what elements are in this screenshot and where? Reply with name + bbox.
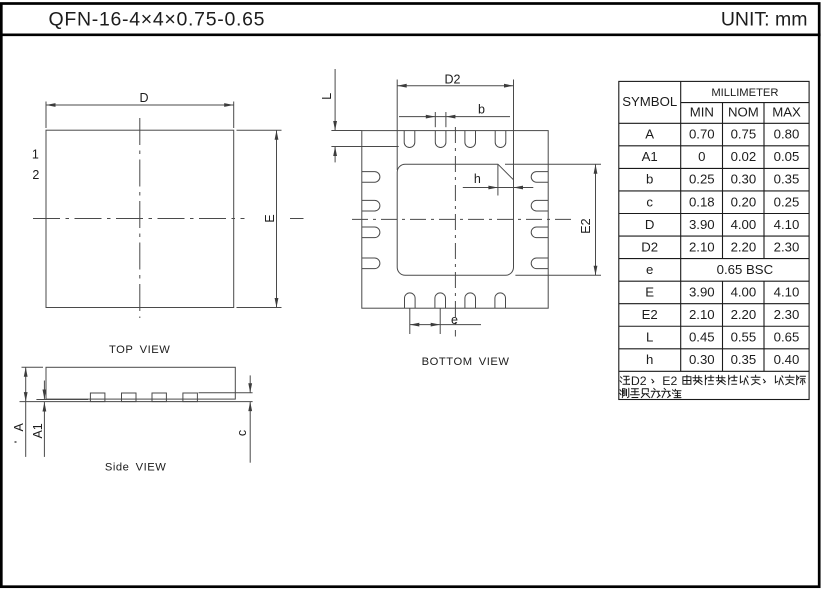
svg-text:BOTTOM VIEW: BOTTOM VIEW [422, 356, 510, 368]
dimension e extension lines [409, 308, 411, 334]
svg-text:0.30: 0.30 [731, 172, 757, 187]
arrow b left [426, 115, 436, 119]
dimension D2 extension lines [396, 80, 398, 171]
svg-text:0.25: 0.25 [689, 172, 715, 187]
dimension b lines [399, 116, 510, 118]
svg-text:MIN: MIN [690, 104, 714, 119]
svg-text:A: A [12, 422, 26, 431]
arrow e right [431, 323, 441, 327]
dimension D2 line [397, 85, 513, 87]
svg-text::D2: :D2 [628, 374, 647, 388]
arrow E2 bottom [594, 266, 598, 276]
svg-text:QFN-16-4×4×0.75-0.65: QFN-16-4×4×0.75-0.65 [49, 8, 266, 30]
note char ding [751, 375, 760, 385]
title band separator [0, 33, 821, 36]
left pad 2 [362, 200, 380, 211]
svg-text:0.02: 0.02 [731, 149, 757, 164]
svg-text:0.75: 0.75 [731, 127, 757, 142]
dimension E2 line [595, 164, 597, 275]
svg-text:E: E [645, 284, 654, 299]
svg-text:3.90: 3.90 [689, 217, 715, 232]
top view vertical centerline [139, 118, 141, 318]
svg-text:E2: E2 [579, 218, 593, 233]
svg-text:0.18: 0.18 [689, 194, 715, 209]
svg-text:A1: A1 [31, 423, 45, 438]
dimension A1 lines [43, 381, 45, 400]
svg-text:4.00: 4.00 [731, 284, 757, 299]
note char wei [662, 388, 671, 397]
side view body bottom extension [36, 399, 88, 401]
svg-text:D2: D2 [445, 73, 461, 87]
left pad 3 [362, 227, 380, 238]
side view lead 1 [90, 393, 105, 402]
arrow A1 upper [43, 390, 47, 400]
dimension E line [276, 130, 278, 307]
svg-text:2.20: 2.20 [731, 307, 757, 322]
svg-text:2.10: 2.10 [689, 307, 715, 322]
note enum comma [652, 379, 654, 383]
stray tick near A label [15, 441, 17, 443]
note char zhu [620, 376, 630, 384]
arrow h right [514, 186, 524, 190]
svg-text:0.80: 0.80 [774, 127, 800, 142]
note char jue [740, 376, 748, 385]
top view horizontal centerline [33, 218, 245, 220]
side view lead 2 [122, 393, 137, 402]
arrow h left [488, 186, 498, 190]
svg-text:4.10: 4.10 [774, 284, 800, 299]
svg-text:e: e [646, 262, 653, 277]
svg-text:e: e [451, 313, 458, 327]
arrow L upper [333, 121, 337, 131]
svg-text:E2: E2 [662, 374, 677, 388]
svg-text:NOM: NOM [728, 104, 759, 119]
arrow E2 top [594, 164, 598, 174]
table grid [619, 81, 809, 399]
svg-text:c: c [646, 194, 653, 209]
arrow D right [224, 103, 234, 107]
arrow D2 right [504, 84, 514, 88]
svg-text:0.35: 0.35 [731, 352, 757, 367]
note char yi [775, 376, 783, 385]
svg-text:Side VIEW: Side VIEW [105, 462, 167, 474]
top view package outline [46, 130, 234, 307]
side view lead top extension line [199, 392, 253, 394]
note char ti [705, 375, 714, 385]
svg-text:2.30: 2.30 [774, 307, 800, 322]
side view body [46, 367, 235, 399]
svg-text:3.90: 3.90 [689, 284, 715, 299]
arrow A bottom [24, 392, 28, 402]
dimension D extension lines [45, 102, 47, 129]
note char ce [620, 388, 629, 397]
svg-text:A1: A1 [642, 149, 658, 164]
note char zhun [672, 389, 681, 397]
dimension A line [25, 367, 27, 457]
top pad 2 [435, 131, 446, 148]
bottom pad 3 [465, 293, 476, 308]
svg-text:h: h [474, 172, 481, 186]
svg-text:h: h [646, 352, 653, 367]
svg-text:MILLIMETER: MILLIMETER [711, 87, 778, 99]
bottom pad 1 [405, 293, 416, 308]
bottom pad 4 [495, 293, 506, 308]
dimension D line [46, 104, 234, 106]
arrow e left [410, 323, 420, 327]
arrow c lower [248, 402, 252, 412]
top pad 1 [404, 131, 415, 148]
dimension A top extension [22, 366, 44, 368]
arrow c upper [248, 383, 252, 393]
dimension E extension lines [237, 129, 282, 131]
note char chi [641, 389, 650, 398]
right pad 4 [531, 258, 548, 269]
svg-text:0.35: 0.35 [774, 172, 800, 187]
side view lead 4 [183, 393, 198, 402]
table note (CJK mimic strokes) [620, 375, 806, 398]
note char ji [797, 375, 806, 384]
svg-text:UNIT: mm: UNIT: mm [721, 9, 808, 31]
svg-text:4.00: 4.00 [731, 217, 757, 232]
note char shi [785, 375, 794, 385]
svg-text:2.10: 2.10 [689, 239, 715, 254]
svg-text:D2: D2 [641, 239, 658, 254]
note char gui [716, 375, 725, 384]
bottom pad 2 [435, 293, 446, 308]
svg-text:0.70: 0.70 [689, 127, 715, 142]
dimension h extension line [497, 164, 499, 195]
svg-text:D: D [139, 91, 148, 105]
svg-text:E: E [263, 214, 277, 222]
dimension c lines [249, 375, 251, 392]
note char zai [693, 375, 702, 384]
svg-text:0.30: 0.30 [689, 352, 715, 367]
svg-text:0.20: 0.20 [731, 194, 757, 209]
svg-text:E2: E2 [642, 307, 658, 322]
note char ge [729, 375, 738, 385]
left pad 4 [362, 258, 380, 269]
arrow b right [446, 115, 456, 119]
svg-text:L: L [320, 93, 334, 100]
arrow E top [275, 130, 279, 140]
svg-text:0.45: 0.45 [689, 330, 715, 345]
centerline dash between views [290, 218, 304, 220]
note char liang [630, 389, 639, 398]
top pad 4 [495, 131, 506, 148]
note full comma [763, 379, 765, 383]
svg-text:TOP VIEW: TOP VIEW [109, 344, 170, 356]
dimension b extension lines [434, 112, 436, 127]
dimension L extension lines [331, 130, 361, 132]
svg-text:0.05: 0.05 [774, 149, 800, 164]
note char you [683, 375, 691, 384]
svg-text:0.65 BSC: 0.65 BSC [717, 262, 774, 277]
dimension h lines [463, 187, 534, 189]
bottom view package outline [362, 131, 548, 309]
right pad 1 [531, 172, 548, 183]
arrow D2 left [397, 84, 407, 88]
svg-text:0.55: 0.55 [731, 330, 757, 345]
left pad 1 [362, 172, 380, 183]
dimension L line [334, 69, 336, 131]
side view seating plane line [20, 401, 253, 403]
side view lead 3 [152, 393, 166, 402]
svg-text:b: b [646, 172, 653, 187]
svg-text:A: A [645, 127, 654, 142]
svg-text:0: 0 [698, 149, 705, 164]
svg-text:L: L [646, 330, 653, 345]
svg-text:b: b [478, 103, 485, 117]
arrow D left [46, 103, 56, 107]
top pad 3 [465, 131, 476, 148]
bottom view horizontal centerline [352, 218, 573, 220]
right pad 2 [531, 200, 548, 211]
svg-text:D: D [645, 217, 655, 232]
svg-text:4.10: 4.10 [774, 217, 800, 232]
arrow A top [24, 367, 28, 377]
svg-text:1: 1 [32, 148, 39, 162]
arrow L lower [333, 147, 337, 157]
svg-text:SYMBOL: SYMBOL [622, 94, 677, 109]
svg-text:0.25: 0.25 [774, 194, 800, 209]
bottom view vertical centerline [454, 127, 456, 337]
right pad 3 [531, 227, 548, 238]
svg-text:0.65: 0.65 [774, 330, 800, 345]
bottom view thermal pad with chamfer [397, 164, 513, 275]
svg-text:MAX: MAX [772, 104, 801, 119]
svg-text:2: 2 [32, 168, 39, 182]
note char cun [651, 388, 660, 397]
svg-text:c: c [235, 430, 249, 436]
arrow A1 lower [43, 402, 47, 412]
svg-text:2.30: 2.30 [774, 239, 800, 254]
arrow E bottom [275, 298, 279, 308]
svg-text:2.20: 2.20 [731, 239, 757, 254]
dimension E2 extension lines [505, 163, 601, 165]
svg-text:0.40: 0.40 [774, 352, 800, 367]
dimension e line [410, 324, 481, 326]
